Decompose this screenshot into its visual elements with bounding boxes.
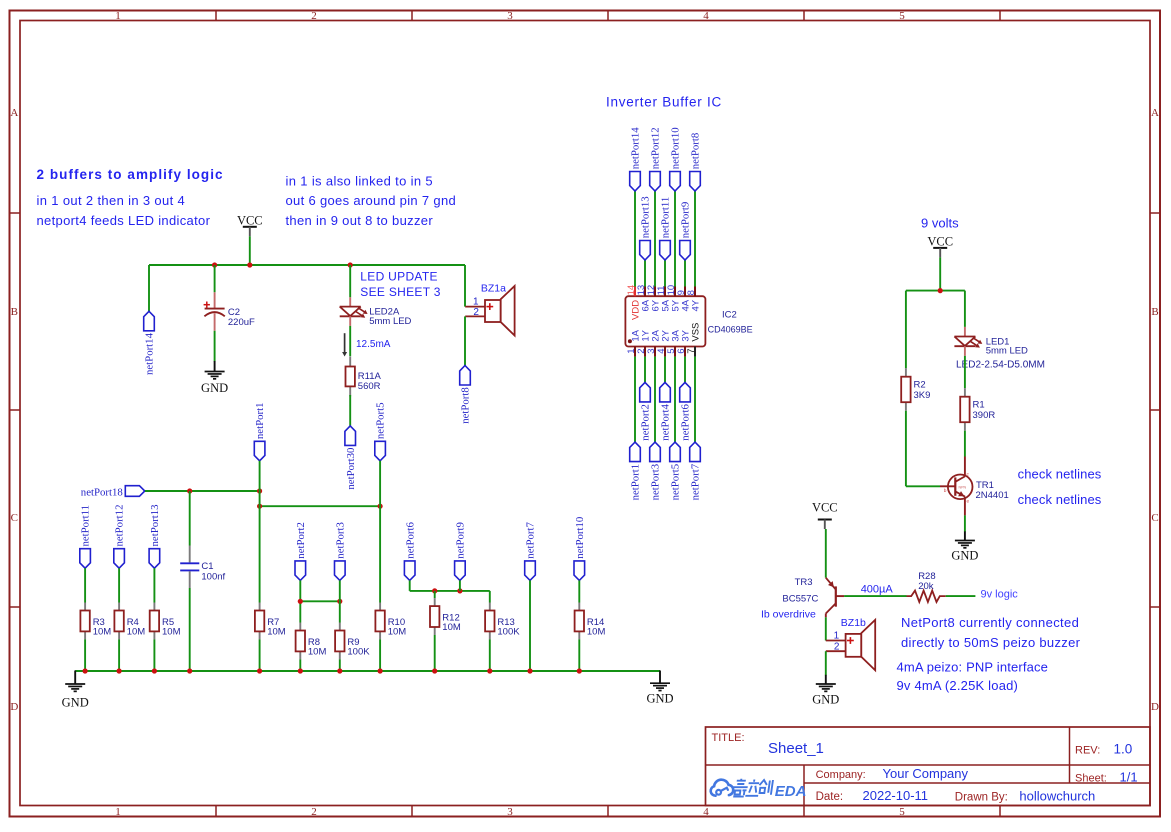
wire: [434, 635, 436, 671]
svg-text:netPort18: netPort18: [81, 486, 123, 498]
svg-text:VCC: VCC: [237, 214, 263, 228]
svg-text:Sheet:: Sheet:: [1075, 772, 1107, 784]
wire: [84, 568, 86, 602]
wire: [153, 639, 155, 671]
resistor R28 20k (zigzag): [907, 571, 946, 602]
wire: [654, 357, 656, 443]
junction: [117, 668, 122, 673]
wire: [464, 265, 466, 307]
svg-text:SEE SHEET 3: SEE SHEET 3: [360, 285, 440, 299]
LED LED1: [954, 336, 1045, 370]
svg-text:7: 7: [686, 349, 697, 354]
frame row labels: [10, 107, 1159, 713]
svg-text:netPort1: netPort1: [254, 403, 266, 440]
junction: [432, 668, 437, 673]
resistor R11A: [346, 357, 382, 397]
resistor R5: [150, 603, 181, 640]
wire: [464, 316, 466, 365]
svg-text:10M: 10M: [442, 622, 461, 633]
transistor TR3 BC557C (PNP): [782, 577, 844, 617]
net port netPort14: [144, 311, 156, 375]
svg-text:100nf: 100nf: [201, 571, 225, 582]
wire: [489, 591, 491, 603]
svg-text:out 6 goes around pin 7 gnd: out 6 goes around pin 7 gnd: [286, 193, 457, 208]
wire: [578, 580, 580, 602]
junction: [187, 668, 192, 673]
junction: [348, 262, 353, 267]
svg-text:10M: 10M: [93, 627, 112, 638]
LED LED2A: [340, 307, 412, 327]
svg-text:C: C: [11, 512, 18, 524]
svg-text:netPort13: netPort13: [149, 505, 161, 547]
resistor R9: [335, 623, 370, 660]
svg-text:NetPort8 currently connected: NetPort8 currently connected: [901, 615, 1079, 630]
svg-text:4: 4: [703, 10, 709, 22]
IC2 pin 5 (3A): [666, 329, 682, 356]
net port netPort14: [630, 127, 642, 191]
svg-text:9v logic: 9v logic: [981, 589, 1019, 601]
svg-text:R1: R1: [973, 400, 985, 411]
ground (rail left): [62, 671, 89, 710]
svg-text:netPort7: netPort7: [690, 463, 702, 500]
svg-text:D: D: [10, 701, 18, 713]
svg-text:then in 9 out 8 to buzzer: then in 9 out 8 to buzzer: [286, 213, 434, 228]
svg-text:netport4 feeds LED indicator: netport4 feeds LED indicator: [37, 213, 211, 228]
svg-text:10M: 10M: [267, 627, 286, 638]
junction: [337, 668, 342, 673]
net port netPort4: [660, 382, 672, 440]
svg-text:12.5mA: 12.5mA: [356, 339, 391, 350]
wire: [189, 588, 191, 671]
net port netPort11: [660, 197, 672, 260]
junction: [577, 668, 582, 673]
IC2 pin 13 (6A): [636, 285, 652, 312]
IC2 pin 6 (3Y): [676, 329, 692, 356]
svg-text:netPort11: netPort11: [660, 197, 672, 239]
svg-text:3: 3: [507, 10, 513, 22]
junction: [247, 262, 252, 267]
svg-text:100K: 100K: [497, 627, 520, 638]
wire: [825, 651, 827, 675]
svg-text:C1: C1: [201, 561, 213, 572]
ground (C2): [201, 361, 228, 395]
svg-text:LED2-2.54-D5.0MM: LED2-2.54-D5.0MM: [956, 360, 1045, 371]
wire: [644, 357, 646, 383]
svg-text:check netlines: check netlines: [1018, 492, 1102, 507]
wire: [664, 357, 666, 383]
net port netPort9: [455, 522, 467, 580]
svg-text:B: B: [11, 306, 18, 318]
svg-text:400µA: 400µA: [861, 584, 894, 596]
junction: [298, 668, 303, 673]
net port netPort8: [690, 133, 702, 191]
junction: [487, 668, 492, 673]
svg-text:netPort13: netPort13: [640, 196, 652, 238]
resistor R10: [375, 603, 406, 640]
net port netPort8: [460, 366, 472, 424]
IC2 pin 10 (5Y): [666, 285, 682, 312]
svg-text:in 1 out 2 then in 3 out 4: in 1 out 2 then in 3 out 4: [37, 193, 186, 208]
svg-text:2: 2: [311, 10, 317, 22]
svg-text:GND: GND: [812, 693, 839, 707]
svg-text:Inverter Buffer IC: Inverter Buffer IC: [606, 94, 722, 109]
wire: [905, 411, 907, 487]
wire: [906, 290, 965, 292]
wire: [844, 595, 906, 597]
wire: [259, 461, 261, 603]
wire: [906, 485, 940, 487]
wire: [674, 357, 676, 443]
svg-text:e: e: [967, 499, 970, 504]
wire: [349, 265, 351, 297]
svg-text:EDA: EDA: [775, 783, 807, 800]
svg-text:netPort12: netPort12: [650, 127, 662, 169]
title block frame: [706, 727, 1151, 806]
svg-text:LED UPDATE: LED UPDATE: [360, 269, 437, 283]
resistor R2: [901, 368, 930, 411]
net port netPort2: [640, 382, 652, 440]
svg-text:A: A: [10, 107, 18, 119]
svg-text:netPort9: netPort9: [680, 202, 692, 239]
wire: link netPort1 column to netPort5 column: [260, 505, 381, 507]
svg-text:netPort11: netPort11: [80, 505, 92, 547]
LED2A cathode pin stub: [349, 316, 351, 326]
net port netPort3: [334, 522, 346, 580]
resistor R12: [430, 598, 461, 635]
IC2 pin 8 (4Y): [686, 287, 702, 312]
wire: [153, 568, 155, 602]
svg-text:TITLE:: TITLE:: [712, 732, 745, 744]
svg-text:Ib overdrive: Ib overdrive: [761, 608, 816, 620]
svg-text:9v 4mA (2.25K load): 9v 4mA (2.25K load): [897, 678, 1019, 693]
svg-text:netPort3: netPort3: [334, 522, 346, 559]
wire: [634, 357, 636, 443]
wire: [664, 260, 666, 287]
wire: [946, 595, 976, 597]
frame row ticks: [10, 213, 1161, 607]
net port netPort5: [375, 403, 387, 461]
wire: [684, 260, 686, 287]
svg-text:A: A: [1151, 107, 1159, 119]
svg-text:Company:: Company:: [816, 769, 866, 781]
junction: [187, 488, 192, 493]
wire: [529, 580, 531, 671]
svg-text:b: b: [944, 488, 947, 494]
svg-text:Sheet_1: Sheet_1: [768, 740, 824, 757]
net port netPort6: [680, 382, 692, 440]
junction: [378, 504, 383, 509]
svg-text:BC557C: BC557C: [782, 594, 818, 605]
svg-text:netPort3: netPort3: [650, 464, 662, 501]
svg-text:NPN: NPN: [959, 486, 967, 490]
svg-text:4Y: 4Y: [691, 299, 702, 311]
net port netPort18: [81, 486, 145, 499]
junction: [152, 668, 157, 673]
wire: [145, 490, 260, 492]
junction: [298, 599, 303, 604]
wire: [694, 357, 696, 443]
JLC EDA logo: [711, 779, 807, 800]
wire: [379, 639, 381, 671]
wire: [654, 191, 656, 287]
svg-text:Your Company: Your Company: [883, 766, 969, 781]
svg-text:Drawn By:: Drawn By:: [955, 792, 1008, 804]
wire: [964, 431, 966, 457]
svg-text:10M: 10M: [127, 627, 146, 638]
svg-text:netPort9: netPort9: [455, 522, 467, 559]
wire: [349, 395, 351, 426]
wire: [339, 580, 341, 622]
wire: [299, 580, 301, 622]
junction: [257, 488, 262, 493]
net port netPort11: [80, 505, 92, 568]
svg-text:390R: 390R: [973, 410, 996, 421]
svg-text:hollowchurch: hollowchurch: [1019, 789, 1095, 804]
net port netPort30: [345, 426, 357, 490]
resistor R13: [485, 603, 520, 640]
svg-text:1: 1: [115, 806, 121, 818]
wire: [939, 257, 941, 290]
junction: [257, 504, 262, 509]
svg-text:netPort5: netPort5: [375, 403, 387, 440]
IC2 pin 14 (VDD): [626, 285, 642, 320]
wire: bottom ground rail: [75, 670, 660, 672]
net port netPort13: [149, 505, 161, 569]
wire: [214, 265, 216, 292]
svg-text:10M: 10M: [162, 627, 181, 638]
svg-text:GND: GND: [62, 695, 89, 709]
ground (rail right): [646, 671, 673, 706]
svg-text:netPort10: netPort10: [574, 517, 586, 559]
svg-text:VCC: VCC: [812, 501, 838, 515]
net port netPort7: [525, 522, 537, 581]
wire: [694, 191, 696, 287]
svg-text:10M: 10M: [587, 627, 606, 638]
svg-text:C: C: [1151, 512, 1158, 524]
wire: [459, 580, 461, 591]
net port netPort10: [574, 517, 586, 581]
junction: [938, 288, 943, 293]
junction: [257, 668, 262, 673]
wire: [189, 491, 191, 546]
svg-text:R2: R2: [914, 380, 926, 391]
wire: [825, 617, 827, 640]
svg-text:2: 2: [311, 806, 317, 818]
svg-text:2022-10-11: 2022-10-11: [863, 788, 929, 803]
junction: [432, 588, 437, 593]
wire: top horizontal rail: [149, 264, 465, 266]
LED1 cathode pin stub: [964, 346, 966, 356]
LED1 anode pin stub: [964, 327, 966, 337]
ground (TR1): [951, 531, 978, 562]
net port netPort5: [670, 442, 682, 500]
svg-text:1.0: 1.0: [1114, 742, 1133, 757]
resistor R4: [114, 603, 145, 640]
wire: [214, 331, 216, 362]
VCC power flag (TR3): [812, 501, 838, 530]
wire: [964, 356, 966, 388]
wire: [148, 265, 150, 311]
svg-text:1/1: 1/1: [1120, 769, 1138, 784]
svg-text:netPort8: netPort8: [690, 133, 702, 170]
svg-text:netPort2: netPort2: [640, 404, 652, 441]
svg-text:3K9: 3K9: [914, 390, 931, 401]
svg-text:8: 8: [686, 290, 697, 295]
wire: [905, 291, 907, 369]
wire: [434, 591, 436, 598]
svg-text:5: 5: [899, 806, 905, 818]
svg-text:BZ1a: BZ1a: [481, 282, 506, 294]
svg-text:netPort14: netPort14: [630, 127, 642, 170]
svg-text:5mm LED: 5mm LED: [369, 316, 411, 327]
net port netPort7: [690, 442, 702, 500]
net port netPort1: [254, 403, 266, 461]
net port netPort9: [680, 202, 692, 260]
svg-text:netPort8: netPort8: [460, 387, 472, 424]
svg-text:netPort6: netPort6: [404, 522, 416, 559]
junction: [212, 262, 217, 267]
wire: [259, 639, 261, 671]
svg-text:2 buffers to amplify logic: 2 buffers to amplify logic: [37, 167, 224, 182]
svg-text:VCC: VCC: [927, 235, 953, 249]
wire: netPort6/netPort9 link rail: [410, 590, 490, 592]
svg-text:netPort2: netPort2: [295, 522, 307, 559]
svg-text:2: 2: [473, 307, 479, 318]
resistor R3: [80, 603, 111, 640]
svg-text:directly to 50mS peizo buzzer: directly to 50mS peizo buzzer: [901, 635, 1081, 650]
transistor TR1 2N4401: [940, 457, 1009, 516]
wire: [299, 659, 301, 671]
buzzer BZ1b: [826, 617, 875, 670]
svg-text:220uF: 220uF: [228, 317, 255, 328]
resistor R14: [575, 603, 606, 640]
svg-text:c: c: [967, 473, 970, 478]
current annotation arrow 12.5mA: [342, 333, 391, 356]
wire: [409, 580, 411, 591]
resistor R8: [296, 623, 327, 660]
svg-text:in 1 is also linked to in 5: in 1 is also linked to in 5: [286, 173, 433, 188]
wire: [578, 639, 580, 671]
svg-text:2N4401: 2N4401: [976, 490, 1009, 501]
svg-text:1: 1: [115, 10, 121, 22]
resistor R7: [255, 603, 286, 640]
svg-text:Date:: Date:: [816, 791, 844, 803]
svg-text:netPort6: netPort6: [680, 404, 692, 441]
svg-text:GND: GND: [951, 548, 978, 562]
svg-text:9 volts: 9 volts: [921, 215, 959, 230]
svg-text:VSS: VSS: [691, 323, 702, 342]
net port netPort6: [404, 522, 416, 581]
net port netPort10: [670, 127, 682, 191]
wire: [634, 191, 636, 287]
net port netPort1: [630, 442, 642, 500]
IC2 pin 1 (1A): [626, 329, 642, 356]
wire: [644, 260, 646, 287]
wire: [964, 291, 966, 327]
svg-text:100K: 100K: [347, 647, 370, 658]
junction: [337, 599, 342, 604]
svg-text:2: 2: [834, 642, 840, 653]
wire: [674, 191, 676, 287]
svg-text:B: B: [1151, 306, 1158, 318]
IC2 pin 3 (2A): [646, 329, 662, 356]
resistor R1: [960, 388, 995, 431]
IC2 pin 12 (6Y): [646, 285, 662, 312]
svg-text:netPort5: netPort5: [670, 464, 682, 501]
ground (BZ1b): [812, 675, 839, 707]
svg-text:netPort14: netPort14: [144, 332, 156, 375]
wire: [249, 236, 251, 265]
svg-text:3: 3: [507, 806, 513, 818]
wire: [118, 639, 120, 671]
svg-text:netPort30: netPort30: [345, 448, 357, 490]
IC2 pin 2 (1Y): [636, 329, 652, 356]
svg-text:GND: GND: [646, 692, 673, 706]
svg-text:netPort7: netPort7: [525, 522, 537, 559]
svg-text:4: 4: [703, 806, 709, 818]
IC2 pin 11 (5A): [656, 286, 672, 312]
net port netPort12: [114, 505, 126, 569]
net port netPort2: [295, 522, 307, 580]
svg-text:D: D: [1151, 701, 1159, 713]
svg-text:netPort12: netPort12: [114, 505, 126, 547]
svg-text:CD4069BE: CD4069BE: [708, 325, 753, 335]
IC2 pin 4 (2Y): [656, 329, 672, 356]
junction: [457, 588, 462, 593]
junction: [378, 668, 383, 673]
wire: link netPort2-netPort3: [300, 600, 340, 602]
op-amp/IC U IC2 CD4069BE body: [625, 296, 752, 346]
wire: [379, 461, 381, 603]
svg-text:1: 1: [834, 631, 840, 642]
VCC power flag (top rail): [237, 214, 263, 237]
svg-text:netPort4: netPort4: [660, 404, 672, 441]
svg-text:GND: GND: [201, 381, 228, 395]
net port netPort12: [650, 127, 662, 191]
wire: [349, 326, 351, 356]
svg-text:TR3: TR3: [795, 577, 813, 588]
buzzer BZ1a: [465, 282, 514, 335]
junction: [83, 668, 88, 673]
net port netPort13: [640, 196, 652, 260]
svg-text:5: 5: [899, 10, 905, 22]
svg-text:IC2: IC2: [722, 310, 737, 321]
capacitor C2: [204, 292, 255, 331]
svg-text:20k: 20k: [918, 581, 934, 592]
svg-text:4mA peizo: PNP interface: 4mA peizo: PNP interface: [897, 659, 1049, 674]
wire: [964, 515, 966, 532]
svg-text:check netlines: check netlines: [1018, 467, 1102, 482]
junction: [527, 668, 532, 673]
svg-text:560R: 560R: [358, 381, 381, 392]
wire: [489, 639, 491, 671]
svg-text:netPort1: netPort1: [630, 464, 642, 501]
svg-text:netPort10: netPort10: [670, 127, 682, 169]
LED2A anode pin stub: [349, 297, 351, 306]
capacitor C1: [180, 546, 225, 589]
wire: [118, 568, 120, 602]
wire: [84, 639, 86, 671]
svg-text:10M: 10M: [388, 627, 407, 638]
svg-text:REV:: REV:: [1075, 745, 1100, 757]
net port netPort3: [650, 442, 662, 500]
wire: [684, 357, 686, 383]
svg-text:5mm LED: 5mm LED: [986, 346, 1028, 357]
IC2 pin 9 (4A): [676, 287, 692, 312]
frame column labels: [115, 10, 905, 818]
VCC power flag (9v): [927, 235, 953, 258]
wire: [825, 529, 827, 578]
